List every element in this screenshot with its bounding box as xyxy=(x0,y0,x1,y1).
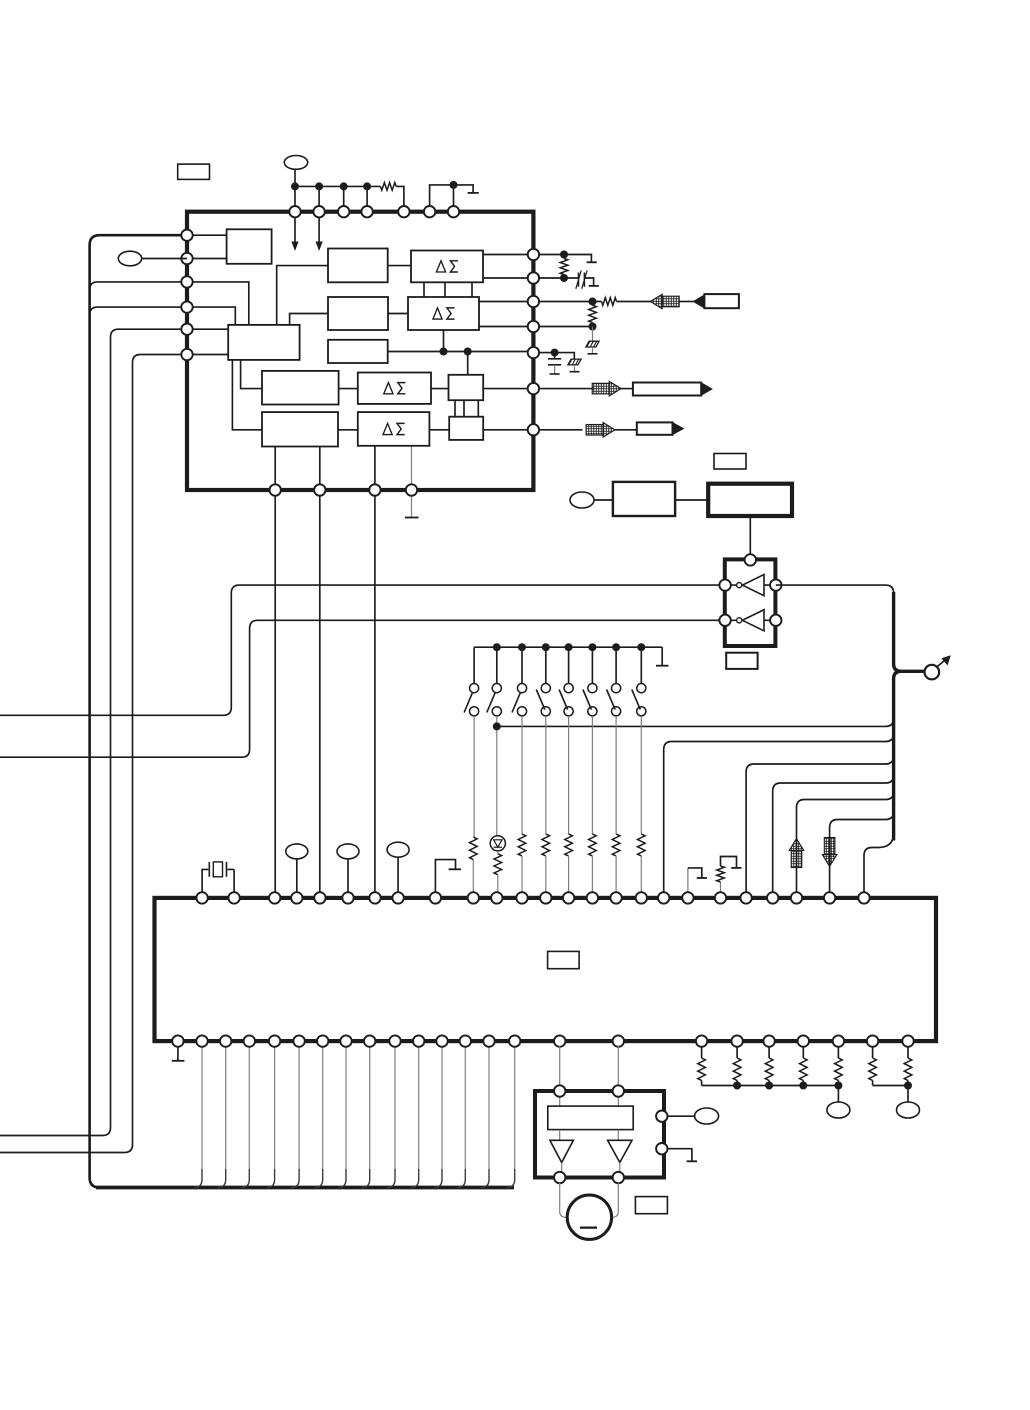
wire U3 inv1 stubs xyxy=(731,584,771,586)
wire IC1 top pins 1-4 rail xyxy=(295,186,367,206)
wire pin R7 out xyxy=(533,429,583,431)
wire node to buffer1 top xyxy=(467,352,469,375)
wire pin R4 out xyxy=(533,326,593,328)
connector flag 1 (solid triangle + box) xyxy=(693,294,705,308)
wire U1a out2 to pin R2 xyxy=(483,277,529,279)
wire interpolator to filter C xyxy=(241,360,262,389)
resistor S2 column xyxy=(494,854,502,875)
amplifier triangle U4b xyxy=(608,1140,632,1162)
wire U1c to buffer1 xyxy=(431,388,449,390)
wire S1 column xyxy=(473,716,475,837)
wire pin R2 out xyxy=(533,277,578,279)
wire IC1 pin B2 to IC2 top xyxy=(319,489,321,899)
node S2 row junction xyxy=(493,722,501,730)
node R1 dot xyxy=(560,251,568,259)
wire interpolator to filter B xyxy=(290,314,328,325)
pins IC1 left xyxy=(181,230,192,241)
op-amp deltasigma U1a xyxy=(411,251,483,283)
block clock divider xyxy=(328,340,388,363)
wire IC1 pin L6 to interpolator xyxy=(187,354,228,356)
wire IC1 left pin5 to bottom-left page exit xyxy=(0,329,187,1135)
wire C1 to ground xyxy=(584,278,593,286)
wire inverter U3 input A from page left edge xyxy=(0,585,725,715)
wire pin R1 out xyxy=(533,255,591,263)
pins U3 xyxy=(745,554,756,565)
block buffer2 xyxy=(449,417,483,440)
wire IC1 pin B1 to IC2 top xyxy=(274,489,276,899)
wire IC1 pin B4 stub xyxy=(411,489,413,517)
pins IC1 bottom xyxy=(270,484,281,495)
wire IC2 pin T18 to trunk xyxy=(664,734,894,899)
net label ellipse left pin L2 xyxy=(118,251,141,266)
node R5 dot xyxy=(551,349,559,357)
wire buffer1 to pin R6 xyxy=(483,388,529,390)
wire U1d to buffer2 xyxy=(429,429,449,431)
wire+resistor S4 column xyxy=(545,716,547,834)
wire IC1 pin L4 to interpolator xyxy=(187,307,235,325)
pins IC2 top xyxy=(196,892,207,903)
switch S5 xyxy=(568,647,570,683)
switch S2 xyxy=(496,647,498,683)
label box motor xyxy=(635,1197,667,1214)
net label ellipse network B xyxy=(907,1086,909,1103)
op-amp deltasigma U1d xyxy=(358,412,430,446)
capacitor C2 to ground xyxy=(554,353,556,359)
node R3 dot xyxy=(589,298,597,306)
wire IC2 pin T21 to trunk xyxy=(746,756,894,899)
wire U4 internal 1 xyxy=(560,1096,619,1106)
resistor R3 series xyxy=(602,298,617,306)
wire U1a-U1b link lines xyxy=(424,282,472,297)
resistor S1 column xyxy=(470,837,478,860)
node network A dots xyxy=(733,1082,741,1090)
wire U1d bottom to pin B3 xyxy=(374,446,376,484)
wire filter D bottom to pin B1 xyxy=(274,447,276,487)
wire IC1 pins T6-T7 link xyxy=(430,185,454,206)
block buffer1 xyxy=(449,375,484,400)
wire merge IC1 left pin4 into left trunk xyxy=(90,307,187,315)
ground IC2 bottom pin 1 xyxy=(177,1046,179,1061)
wire pin R6 out xyxy=(533,388,594,390)
wire filter D to deltasigma U1d xyxy=(338,429,358,431)
wire pin R5 out xyxy=(533,353,574,359)
wire oscillator to regulator xyxy=(675,499,708,501)
wire U4 to motor right xyxy=(611,1183,619,1217)
wire IC1 pin L1 to control box xyxy=(187,234,227,236)
wire IC1 pin L5 to interpolator xyxy=(187,328,228,330)
wire+resistor S8 column xyxy=(640,716,642,834)
node top rail dots xyxy=(291,182,299,190)
wire bus trunk left (IC2 bottom bus to IC1 left pins) xyxy=(90,235,200,1187)
block regulator (thick) xyxy=(708,484,792,516)
wire to connector flag 3 xyxy=(615,429,637,431)
wire IC2 to driver U4 pin1 xyxy=(559,1046,561,1086)
wire to connector flag 2 xyxy=(621,388,633,390)
wire inverter U3 input B from page left edge xyxy=(0,620,725,757)
wire pin R3 out xyxy=(533,301,602,303)
wire IC2 pin T22 to trunk xyxy=(773,775,894,899)
block filter D xyxy=(262,412,338,446)
amplifier triangle U4a xyxy=(550,1140,574,1162)
wire+resistor S3 column xyxy=(521,716,523,834)
wire U4 right pin1 to label xyxy=(667,1115,695,1117)
net label ellipse IC2-T4 xyxy=(286,844,308,859)
wire U4 internal 2 xyxy=(560,1130,619,1141)
node pin T7 junction xyxy=(450,181,458,189)
wire bottom bus (thick, collects IC2 bottom pins) xyxy=(96,1186,514,1190)
node row3 junction 1 xyxy=(440,348,448,356)
node switch bus junction dots xyxy=(493,643,501,651)
bus arrow left (audio data in) xyxy=(662,296,679,307)
wire U1d bottom to pin B4 xyxy=(411,446,413,484)
IC IC2 (system controller) outline xyxy=(155,898,937,1041)
wire+resistor S7 column xyxy=(615,716,617,834)
wire buffer2 to pin R7 xyxy=(483,429,529,431)
switch S6 xyxy=(591,647,593,683)
label box under U3 xyxy=(726,653,757,669)
wire trunk output stub xyxy=(899,670,925,673)
wire switch S2 row to trunk xyxy=(497,718,894,726)
node output circle + arrow xyxy=(925,665,940,680)
ground flag IC2-T19 xyxy=(687,868,689,893)
node row3 junction 2 xyxy=(464,348,472,356)
label box inside IC2 xyxy=(548,951,580,968)
inverter U3a triangle xyxy=(742,575,764,596)
wire filter C to deltasigma U1c xyxy=(339,388,358,390)
wires IC2 bottom pins to bottom bus xyxy=(201,1046,203,1170)
block filter A xyxy=(328,249,388,283)
bus arrow right (bit clock) xyxy=(592,383,609,394)
wire S2 column upper xyxy=(496,716,498,836)
node R4 dot xyxy=(589,323,597,331)
resistor R2 between R1/R2 lines xyxy=(560,259,568,275)
wire IC2 pin T23 to trunk xyxy=(797,792,894,899)
wire regulator to inverter U3 xyxy=(749,516,751,556)
arrow internal clock down 1 xyxy=(294,213,296,242)
wire IC1 left pin6 to bottom-left page exit xyxy=(0,355,187,1153)
wire U1b out2 to pin R4 xyxy=(479,326,529,328)
ground signal (hatched) 1 xyxy=(586,341,599,347)
wire filter A to deltasigma U1a xyxy=(388,265,411,267)
wire+resistor S6 column xyxy=(591,716,593,834)
ground switch bus right xyxy=(661,647,663,665)
pins IC1 right xyxy=(528,249,539,260)
wire U3 output to right trunk xyxy=(776,585,894,593)
inverter U3b triangle xyxy=(742,610,764,631)
block U4 internal box xyxy=(548,1106,633,1130)
node R2 dot xyxy=(560,274,568,282)
pins IC2 bottom xyxy=(172,1035,183,1046)
net label ellipse oscillator xyxy=(570,492,594,508)
connector flag 3 (box + solid triangle) xyxy=(637,422,673,434)
ground signal (hatched) 2 xyxy=(568,359,581,365)
wire interpolator to filter D xyxy=(232,360,262,430)
wire switch bus top xyxy=(474,646,662,648)
label box mid xyxy=(714,454,746,470)
wire filter D bottom to pin B2 xyxy=(319,447,321,487)
bus arrow up on pin T23 wire xyxy=(791,851,802,868)
diode LED in circle (S2 column) xyxy=(490,836,505,851)
wire R4 dot down xyxy=(592,327,594,342)
wire U1b out1 to pin R3 xyxy=(479,301,529,303)
pins IC1 top xyxy=(289,206,300,217)
wire clock box to pin R5 xyxy=(388,351,529,353)
net label ellipse U4 xyxy=(695,1108,719,1124)
motor M1 xyxy=(567,1195,611,1239)
wire U1b bottom to node xyxy=(443,330,445,352)
label box top-left xyxy=(178,164,210,179)
net label ellipse IC2-T8 xyxy=(387,842,409,857)
IC IC1 (DAC) outline xyxy=(187,212,533,490)
wire merge IC1 left pin3 into left trunk xyxy=(90,282,187,290)
wire U4 internal 3 xyxy=(562,1163,620,1173)
ground flag top right of IC1 xyxy=(454,185,474,193)
wire U1a out1 to pin R1 xyxy=(483,254,529,256)
switch S1 xyxy=(473,647,475,683)
IC U4 motor driver outline xyxy=(535,1091,664,1178)
net label ellipse network A xyxy=(837,1086,839,1103)
wire U4 to motor left xyxy=(560,1183,569,1217)
wire IC2 to driver U4 pin2 xyxy=(617,1046,619,1086)
switch S4 xyxy=(545,647,547,683)
op-amp deltasigma U1c xyxy=(358,373,431,404)
resistor network A (5 pull resistors) xyxy=(701,1046,703,1058)
capacitor C1 (slashed) xyxy=(579,273,585,287)
switch S3 xyxy=(521,647,523,683)
wire filter B to deltasigma U1b xyxy=(388,313,408,315)
crystal X1 xyxy=(202,869,234,893)
connector flag 2 (box + solid triangle) xyxy=(633,383,701,396)
op-amp deltasigma U1b xyxy=(408,297,479,330)
pins U4 xyxy=(554,1085,565,1096)
wire IC1 pin B3 to IC2 top xyxy=(374,489,376,899)
block filter C xyxy=(262,371,339,405)
wire IC2 pin T25 to trunk tail xyxy=(864,833,894,899)
block control register xyxy=(227,229,272,263)
resistor R1 (top rail to pin T5) xyxy=(381,183,397,191)
wire buffer1-buffer2 link lines xyxy=(455,400,478,417)
switch S7 xyxy=(615,647,617,683)
resistor + ground flag IC2-T20 xyxy=(720,882,722,893)
wire IC2 pin T24 to trunk xyxy=(830,812,894,899)
bus arrow down on pin T24 wire xyxy=(824,838,835,855)
bus arrow right (LR clock) xyxy=(586,425,603,436)
ground bar pin R1 xyxy=(587,261,597,263)
wire IC1 pin L3 to interpolator xyxy=(187,282,249,325)
ground flag IC2-T9 xyxy=(435,860,455,893)
resistor network B (2 pull resistors) xyxy=(872,1046,874,1058)
wire to connector flag 1 xyxy=(678,301,693,303)
ground flag U4 right pin2 xyxy=(667,1149,692,1161)
switch S8 xyxy=(640,647,642,683)
wire+resistor S5 column xyxy=(568,716,570,834)
wire right trunk lower (thick) xyxy=(894,671,902,840)
wire IC1 pin L2 to control box xyxy=(187,258,227,260)
wire right trunk upper (thick) xyxy=(894,592,902,671)
ground bar C1 xyxy=(589,285,599,287)
arrow internal clock down 2 xyxy=(318,213,320,242)
net label VDD ellipse xyxy=(284,156,307,170)
block oscillator xyxy=(613,482,675,516)
block interpolator xyxy=(228,325,299,360)
IC U3 inverter block outline xyxy=(725,559,776,646)
wire U3 inv2 stubs xyxy=(731,619,771,621)
ground IC1 pin B4 xyxy=(405,517,419,519)
net label ellipse IC2-T6 xyxy=(337,844,359,859)
block filter B xyxy=(328,297,388,330)
node network B dot xyxy=(904,1082,912,1090)
wire interpolator to filter A xyxy=(277,266,328,325)
resistor R4 between R3/R4 lines xyxy=(589,305,597,322)
